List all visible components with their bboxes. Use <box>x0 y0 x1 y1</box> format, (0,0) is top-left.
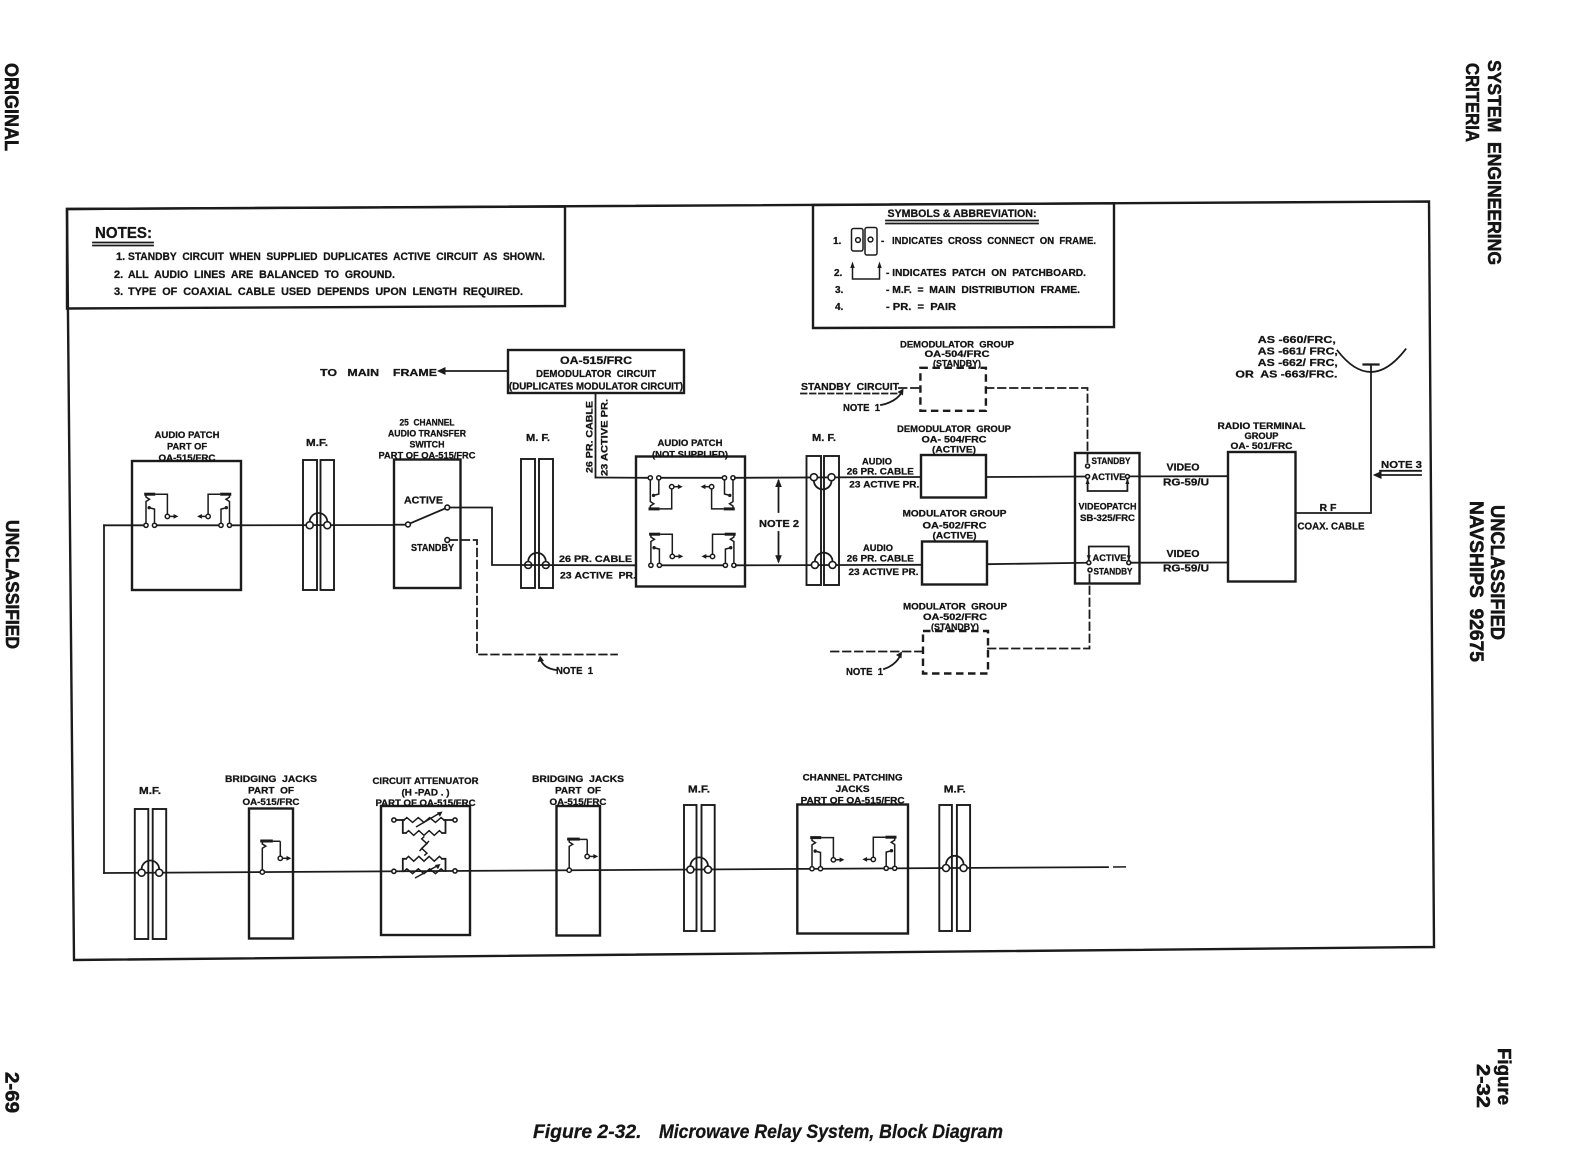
wire mod active to videopatch <box>987 563 1086 564</box>
wire left vertical loop to bottom row <box>103 525 105 873</box>
svg-text:(STANDBY): (STANDBY) <box>931 622 979 633</box>
svg-text:UNCLASSIFIED: UNCLASSIFIED <box>1486 505 1508 640</box>
patch jack pair (left audio patch) <box>144 494 179 527</box>
svg-text:STANDBY: STANDBY <box>1094 567 1133 577</box>
svg-text:OA-515/FRC: OA-515/FRC <box>550 797 607 808</box>
svg-text:STANDBY CIRCUIT: STANDBY CIRCUIT <box>801 381 900 393</box>
svg-text:-: - <box>881 236 884 247</box>
svg-text:26 PR. CABLE: 26 PR. CABLE <box>559 554 632 565</box>
svg-text:RG-59/U: RG-59/U <box>1163 478 1209 489</box>
svg-text:DEMODULATOR CIRCUIT: DEMODULATOR CIRCUIT <box>536 368 657 380</box>
svg-text:- PR. = PAIR: - PR. = PAIR <box>886 302 957 313</box>
svg-text:OA-515/FRC: OA-515/FRC <box>560 355 632 367</box>
wire inside patch box lower <box>660 564 724 566</box>
svg-text:M. F.: M. F. <box>812 433 836 444</box>
svg-text:(NOT SUPPLIED): (NOT SUPPLIED) <box>652 450 728 461</box>
svg-text:M.F.: M.F. <box>944 785 966 796</box>
svg-text:DEMODULATOR GROUP: DEMODULATOR GROUP <box>897 424 1012 435</box>
dashed standby wire to note 1 <box>450 540 617 655</box>
svg-text:INDICATES CROSS CONNECT ON: INDICATES CROSS CONNECT ON FRAME. <box>892 236 1096 247</box>
wire RF coax to antenna <box>1296 365 1372 514</box>
svg-text:NOTE 3: NOTE 3 <box>1381 459 1422 471</box>
svg-text:2.: 2. <box>114 269 123 281</box>
block CIRCUIT ATTENUATOR (H-PAD.) <box>381 806 470 935</box>
svg-text:26 PR. CABLE: 26 PR. CABLE <box>847 467 914 478</box>
svg-text:OA-515/FRC: OA-515/FRC <box>243 797 300 808</box>
dashed wire standby circuit to demod standby box <box>899 387 920 389</box>
svg-text:NOTE 2: NOTE 2 <box>759 519 799 530</box>
block AUDIO PATCH (NOT SUPPLIED) <box>636 457 745 587</box>
block AUDIO PATCH PART OF OA-515/FRC (left) <box>132 461 241 590</box>
svg-text:TYPE OF COAXIAL CABLE USED: TYPE OF COAXIAL CABLE USED DEPENDS UPON … <box>128 286 523 298</box>
svg-text:PART OF: PART OF <box>167 442 207 453</box>
svg-text:NOTES:: NOTES: <box>95 225 152 242</box>
wire patch box to M.F.#3 lower <box>736 564 922 567</box>
patch jack pair lower <box>649 534 684 567</box>
wire upper audio line into patch box <box>596 477 649 479</box>
NOTES box <box>67 207 565 309</box>
svg-text:4.: 4. <box>835 302 844 313</box>
svg-text:SWITCH: SWITCH <box>410 440 445 451</box>
svg-text:TO MAIN FRAME: TO MAIN FRAME <box>320 367 437 379</box>
wire top-left loop horizontal <box>104 524 143 526</box>
bridging jack symbol (left) <box>260 841 291 874</box>
svg-text:SYMBOLS & ABBREVIATION:: SYMBOLS & ABBREVIATION: <box>888 208 1037 220</box>
wire from demodulator circuit down to audio line <box>595 393 597 478</box>
left margin vertical text ORIGINAL <box>0 63 22 151</box>
antenna dish <box>1364 363 1379 365</box>
svg-text:M.F.: M.F. <box>139 786 161 797</box>
svg-text:23 ACTIVE PR.: 23 ACTIVE PR. <box>600 399 611 476</box>
patch jack pair upper <box>648 476 683 509</box>
block 25 CHANNEL AUDIO TRANSFER SWITCH <box>394 460 461 589</box>
svg-text:Figure 2-32.: Figure 2-32. <box>533 1121 642 1143</box>
svg-text:AUDIO: AUDIO <box>863 543 893 554</box>
svg-text:- INDICATES PATCH ON PATCHB: - INDICATES PATCH ON PATCHBOARD. <box>886 268 1086 279</box>
dashed wire into mod standby box <box>831 651 923 653</box>
svg-text:AUDIO PATCH: AUDIO PATCH <box>658 438 723 449</box>
videopatch lower patch jacks <box>1089 547 1129 561</box>
svg-text:23 ACTIVE PR.: 23 ACTIVE PR. <box>560 571 636 582</box>
svg-text:(ACTIVE): (ACTIVE) <box>933 531 977 542</box>
block DEMODULATOR GROUP OA-504/FRC (ACTIVE) <box>921 455 986 498</box>
outer border frame of diagram <box>67 202 1434 961</box>
svg-text:CIRCUIT ATTENUATOR: CIRCUIT ATTENUATOR <box>373 776 479 787</box>
svg-text:23 ACTIVE PR.: 23 ACTIVE PR. <box>849 480 919 491</box>
svg-text:- M.F. = MAIN DISTRIBUTION: - M.F. = MAIN DISTRIBUTION FRAME. <box>886 285 1080 296</box>
svg-text:ALL AUDIO LINES ARE BALANC: ALL AUDIO LINES ARE BALANCED TO GROUND. <box>128 269 395 281</box>
svg-text:Figure: Figure <box>1494 1048 1515 1105</box>
bridging jack symbol (right) <box>567 839 598 872</box>
left margin vertical page number 2-69 <box>1 1072 23 1113</box>
svg-text:1.: 1. <box>116 251 125 263</box>
svg-text:COAX. CABLE: COAX. CABLE <box>1298 522 1365 533</box>
svg-text:MODULATOR GROUP: MODULATOR GROUP <box>903 602 1008 613</box>
wire active contact to M.F.#2 <box>450 508 521 566</box>
svg-text:OA-515/FRC: OA-515/FRC <box>159 453 216 464</box>
svg-text:MODULATOR GROUP: MODULATOR GROUP <box>903 509 1008 520</box>
block MODULATOR GROUP OA-502/FRC (STANDBY), dashed <box>923 631 988 674</box>
svg-text:ACTIVE: ACTIVE <box>1092 472 1126 482</box>
svg-text:CRITERIA: CRITERIA <box>1462 63 1483 142</box>
wire videopatch to radio terminal lower <box>1131 562 1228 564</box>
svg-text:(DUPLICATES MODULATOR CIRCUIT): (DUPLICATES MODULATOR CIRCUIT) <box>509 381 683 393</box>
wire into switch input <box>394 524 406 526</box>
svg-text:2-69: 2-69 <box>1 1072 23 1113</box>
svg-text:SYSTEM ENGINEERING: SYSTEM ENGINEERING <box>1484 60 1505 265</box>
wire demod active to videopatch <box>986 476 1085 479</box>
svg-text:CHANNEL PATCHING: CHANNEL PATCHING <box>803 773 903 784</box>
svg-text:NOTE 1: NOTE 1 <box>843 403 880 414</box>
svg-text:VIDEO: VIDEO <box>1167 549 1200 560</box>
svg-text:VIDEOPATCH: VIDEOPATCH <box>1079 502 1137 512</box>
svg-text:AS -660/FRC,: AS -660/FRC, <box>1258 334 1336 346</box>
block VIDEOPATCH SB-325/FRC <box>1075 453 1140 584</box>
legend cross-connect symbol <box>852 228 878 256</box>
bottom main audio wire <box>104 867 1108 873</box>
left margin vertical text UNCLASSIFIED <box>2 520 23 649</box>
svg-text:(ACTIVE): (ACTIVE) <box>932 445 976 456</box>
svg-text:2.: 2. <box>834 268 843 279</box>
right margin vertical text UNCLASSIFIED NAVSHIPS 92675 <box>1465 501 1508 662</box>
wire M.F.#2 to audio patch (not supplied) <box>521 564 636 566</box>
channel patching jack pair <box>810 838 845 871</box>
svg-text:STANDBY: STANDBY <box>1092 456 1131 466</box>
wire audio patch to M.F. <box>232 524 394 526</box>
svg-text:M.F.: M.F. <box>306 438 328 449</box>
svg-text:BRIDGING JACKS: BRIDGING JACKS <box>225 774 317 785</box>
block BRIDGING JACKS (right) <box>557 806 601 936</box>
block MODULATOR GROUP OA-502/FRC (ACTIVE) <box>922 542 987 585</box>
cross-connect jack on M.F.#3 lower <box>811 553 836 569</box>
svg-text:ACTIVE: ACTIVE <box>404 496 443 507</box>
block DEMODULATOR GROUP OA-504/FRC (STANDBY), dashed <box>920 368 986 411</box>
svg-text:3.: 3. <box>835 285 844 296</box>
svg-text:26 PR. CABLE: 26 PR. CABLE <box>847 554 914 565</box>
svg-text:26 PR. CABLE: 26 PR. CABLE <box>585 401 596 473</box>
svg-text:ORIGINAL: ORIGINAL <box>0 63 22 151</box>
svg-text:UNCLASSIFIED: UNCLASSIFIED <box>2 520 23 649</box>
wire patch box to M.F.#3 upper <box>735 476 921 479</box>
svg-text:ACTIVE: ACTIVE <box>1093 553 1127 563</box>
svg-text:23 ACTIVE PR.: 23 ACTIVE PR. <box>849 567 919 578</box>
SYMBOLS and ABBREVIATION legend box <box>813 203 1114 328</box>
svg-text:PART OF OA-515/FRC: PART OF OA-515/FRC <box>379 451 476 462</box>
svg-text:PART OF OA-515/FRC: PART OF OA-515/FRC <box>801 796 905 807</box>
svg-text:PART OF: PART OF <box>555 786 601 797</box>
cross-connect jack on M.F.#3 upper (arc below) <box>810 474 835 490</box>
svg-text:PART OF OA-515/FRC: PART OF OA-515/FRC <box>376 798 476 809</box>
svg-text:1.: 1. <box>833 236 842 247</box>
svg-text:OR AS -663/FRC.: OR AS -663/FRC. <box>1235 369 1337 381</box>
cross-connect jack on M.F. #2 <box>525 553 550 569</box>
svg-text:STANDBY: STANDBY <box>411 543 454 554</box>
wire videopatch to radio terminal upper (VIDEO RG-59/U) <box>1130 475 1228 477</box>
videopatch upper patch jacks <box>1086 464 1090 468</box>
wire inside left audio patch box <box>157 524 220 526</box>
svg-text:AS -661/ FRC,: AS -661/ FRC, <box>1258 346 1338 358</box>
svg-text:M.F.: M.F. <box>688 785 710 796</box>
svg-text:VIDEO: VIDEO <box>1167 463 1200 474</box>
wire inside patch box upper <box>660 477 724 479</box>
svg-text:NOTE 1: NOTE 1 <box>556 666 593 677</box>
cross-connect jack on M.F.#4 <box>138 861 163 877</box>
svg-text:OA- 501/FRC: OA- 501/FRC <box>1231 441 1293 452</box>
svg-text:AUDIO TRANSFER: AUDIO TRANSFER <box>388 429 466 440</box>
cross-connect jack on M.F.#5 <box>687 857 712 873</box>
svg-text:3.: 3. <box>114 286 123 298</box>
cross-connect jack on M.F. #1 <box>306 513 331 529</box>
svg-text:2-32: 2-32 <box>1473 1064 1494 1108</box>
svg-text:(STANDBY): (STANDBY) <box>933 359 981 370</box>
legend patch-on-patchboard symbol <box>850 262 881 280</box>
svg-text:25 CHANNEL: 25 CHANNEL <box>400 418 455 429</box>
svg-text:SB-325/FRC: SB-325/FRC <box>1080 513 1136 523</box>
svg-text:RG-59/U: RG-59/U <box>1163 564 1209 575</box>
svg-text:BRIDGING JACKS: BRIDGING JACKS <box>532 774 624 785</box>
svg-text:NOTE 1: NOTE 1 <box>846 667 883 678</box>
block OA-515/FRC demodulator circuit <box>508 350 684 393</box>
block BRIDGING JACKS (left) <box>249 809 293 939</box>
H-pad resistor network <box>392 812 457 879</box>
NOTE 2 double arrow <box>778 481 780 512</box>
block RADIO TERMINAL GROUP OA-501/FRC <box>1228 452 1296 582</box>
svg-text:Microwave Relay System, Block: Microwave Relay System, Block Diagram <box>659 1121 1003 1143</box>
svg-text:AUDIO PATCH: AUDIO PATCH <box>155 430 220 441</box>
svg-text:PART OF: PART OF <box>248 786 294 797</box>
svg-text:AS -662/ FRC,: AS -662/ FRC, <box>1258 357 1338 369</box>
svg-text:M. F.: M. F. <box>526 433 550 444</box>
dashed wire demod standby box to videopatch standby <box>986 388 1088 462</box>
wire end dash <box>1113 866 1126 868</box>
dashed wire mod standby box to videopatch standby <box>988 572 1090 649</box>
svg-text:STANDBY CIRCUIT WHEN SUPPLI: STANDBY CIRCUIT WHEN SUPPLIED DUPLICATES… <box>128 251 545 263</box>
cross-connect jack on M.F.#6 <box>943 856 968 872</box>
right margin vertical text SYSTEM ENGINEERING CRITERIA <box>1462 60 1505 265</box>
block CHANNEL PATCHING JACKS <box>797 805 908 934</box>
svg-text:R F: R F <box>1320 503 1337 514</box>
arrow TO MAIN FRAME <box>444 370 508 372</box>
right margin vertical text Figure 2-32 <box>1473 1048 1515 1108</box>
svg-text:JACKS: JACKS <box>836 784 870 795</box>
svg-text:NAVSHIPS 92675: NAVSHIPS 92675 <box>1465 501 1487 662</box>
